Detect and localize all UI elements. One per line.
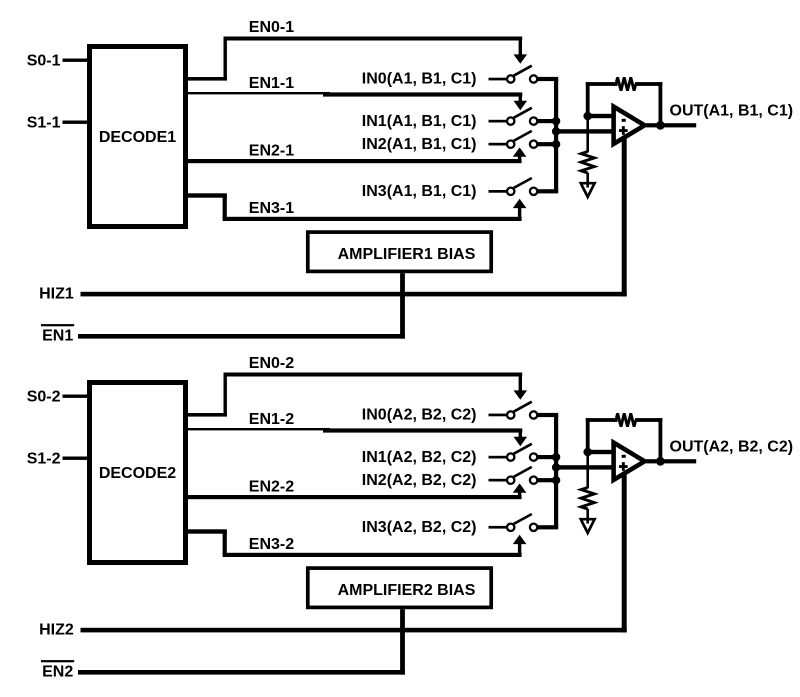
- node EN1 label (overbar): [41, 324, 74, 345]
- wire EN2-1: [188, 156, 522, 164]
- ground 1: [581, 173, 595, 197]
- svg-text:AMPLIFIER1 BIAS: AMPLIFIER1 BIAS: [338, 246, 476, 263]
- svg-text:IN2(A2, B2, C2): IN2(A2, B2, C2): [362, 472, 477, 489]
- wire inverting input 1: [588, 114, 616, 118]
- node EN2 label (overbar): [41, 660, 74, 681]
- switch SW-IN3-1: [507, 178, 537, 195]
- wire divider 2: [586, 452, 589, 488]
- resistor feedback R1f: [616, 77, 636, 90]
- wire IN0-2 input: [489, 414, 508, 417]
- junction IN2 bus node 2: [552, 476, 560, 484]
- wire EN1-2: [188, 428, 522, 438]
- wire S1-1: [63, 121, 88, 124]
- svg-text:IN0(A2, B2, C2): IN0(A2, B2, C2): [362, 407, 477, 424]
- junction amp-input bus node 2: [552, 463, 560, 471]
- wire IN2-2 input: [489, 479, 508, 482]
- control arrow EN1-2: [514, 437, 528, 446]
- svg-text:EN2-2: EN2-2: [249, 479, 294, 496]
- svg-text:EN2-1: EN2-1: [249, 143, 294, 160]
- control arrow EN2-1: [513, 147, 527, 156]
- ground 2: [581, 509, 595, 533]
- control arrow EN3-1: [513, 199, 527, 208]
- switch SW-IN1-2: [507, 444, 537, 461]
- svg-text:IN1(A2, B2, C2): IN1(A2, B2, C2): [362, 449, 477, 466]
- wire IN1-1 input: [489, 120, 508, 123]
- svg-text:IN3(A1, B1, C1): IN3(A1, B1, C1): [362, 183, 477, 200]
- wire EN2 (active low): [78, 670, 405, 675]
- control arrow EN3-2: [513, 535, 527, 544]
- control arrow EN0-2: [514, 390, 528, 399]
- op-amp A2: [614, 443, 645, 480]
- resistor feedback R2f: [616, 413, 636, 426]
- decoder DECODE2: [90, 383, 186, 563]
- junction inverting input node 1: [583, 112, 592, 121]
- wire switch output bus 1: [554, 79, 558, 191]
- resistor to ground R1g: [581, 152, 594, 174]
- wire feedback loop 2: [586, 418, 663, 461]
- switch SW-IN0-1: [507, 66, 537, 83]
- wire SW-IN1-2 to bus: [537, 455, 558, 459]
- wire switch output bus 2: [554, 415, 558, 527]
- junction output node 2: [656, 457, 665, 466]
- wire EN2-2: [188, 492, 522, 500]
- wire IN0-1 input: [489, 78, 508, 81]
- svg-text:OUT(A2, B2, C2): OUT(A2, B2, C2): [670, 439, 794, 456]
- control arrow EN0-1: [514, 54, 528, 63]
- wire bias enable 2: [400, 609, 405, 674]
- wire IN1-2 input: [489, 456, 508, 459]
- junction output node 1: [656, 121, 665, 130]
- wire IN2-1 input: [489, 143, 508, 146]
- svg-text:EN3-1: EN3-1: [249, 200, 294, 217]
- wire bus to op-amp noninverting input 2: [556, 465, 616, 469]
- wire inverting input 2: [588, 450, 616, 454]
- wire IN3-1 input: [489, 190, 508, 193]
- resistor to ground R2g: [581, 488, 594, 510]
- switch SW-IN1-1: [507, 108, 537, 125]
- svg-text:HIZ2: HIZ2: [39, 621, 74, 638]
- svg-text:S0-2: S0-2: [27, 388, 61, 405]
- wire EN0-2: [188, 373, 522, 417]
- svg-text:EN0-1: EN0-1: [249, 19, 294, 36]
- svg-text:EN2: EN2: [42, 664, 73, 681]
- wire SW-IN1-1 to bus: [537, 119, 558, 123]
- block AMPLIFIER1 BIAS: [308, 232, 491, 271]
- wire SW-IN0-1 to bus: [537, 77, 558, 81]
- wire divider 1: [586, 116, 589, 152]
- junction inverting input node 2: [583, 448, 592, 457]
- switch SW-IN0-2: [507, 402, 537, 419]
- svg-text:S1-1: S1-1: [27, 114, 61, 131]
- wire EN3-1: [188, 193, 522, 221]
- wire bus to op-amp noninverting input 1: [556, 129, 616, 133]
- wire EN3-2: [188, 529, 522, 557]
- svg-text:IN0(A1, B1, C1): IN0(A1, B1, C1): [362, 71, 477, 88]
- svg-text:IN1(A1, B1, C1): IN1(A1, B1, C1): [362, 113, 477, 130]
- junction IN2 bus node 1: [552, 140, 560, 148]
- svg-text:AMPLIFIER2 BIAS: AMPLIFIER2 BIAS: [338, 582, 476, 599]
- wire SW-IN2-1 to bus: [537, 142, 558, 146]
- wire SW-IN2-2 to bus: [537, 478, 558, 482]
- svg-text:EN1: EN1: [42, 328, 73, 345]
- svg-text:IN3(A2, B2, C2): IN3(A2, B2, C2): [362, 519, 477, 536]
- switch SW-IN3-2: [507, 514, 537, 531]
- svg-text:OUT(A1, B1, C1): OUT(A1, B1, C1): [670, 103, 794, 120]
- svg-text:S1-2: S1-2: [27, 450, 61, 467]
- wire HIZ2: [81, 474, 627, 633]
- wire EN1 (active low): [78, 334, 405, 339]
- wire SW-IN3-2 to bus: [537, 525, 558, 529]
- block AMPLIFIER2 BIAS: [308, 568, 491, 607]
- wire HIZ1: [81, 138, 627, 297]
- wire IN3-2 input: [489, 526, 508, 529]
- wire S0-2: [63, 395, 88, 398]
- junction IN1 bus node 2: [552, 453, 560, 461]
- svg-text:EN0-2: EN0-2: [249, 355, 294, 372]
- svg-text:EN3-2: EN3-2: [249, 536, 294, 553]
- switch SW-IN2-2: [507, 467, 537, 484]
- op-amp A1: [614, 107, 645, 144]
- wire bias enable 1: [400, 273, 405, 338]
- wire output OUT 1: [646, 123, 696, 127]
- wire EN1-1: [188, 92, 522, 102]
- switch SW-IN2-1: [507, 131, 537, 148]
- junction amp-input bus node 1: [552, 127, 560, 135]
- svg-text:S0-1: S0-1: [27, 52, 61, 69]
- control arrow EN1-1: [514, 101, 528, 110]
- svg-text:DECODE1: DECODE1: [99, 129, 176, 146]
- wire EN0-1: [188, 37, 522, 81]
- svg-text:DECODE2: DECODE2: [99, 465, 176, 482]
- svg-text:IN2(A1, B1, C1): IN2(A1, B1, C1): [362, 136, 477, 153]
- junction IN1 bus node 1: [552, 117, 560, 125]
- decoder DECODE1: [90, 47, 186, 227]
- svg-text:HIZ1: HIZ1: [39, 285, 74, 302]
- wire SW-IN0-2 to bus: [537, 413, 558, 417]
- svg-text:EN1-2: EN1-2: [249, 411, 294, 428]
- control arrow EN2-2: [513, 483, 527, 492]
- wire feedback loop 1: [586, 82, 663, 125]
- svg-text:EN1-1: EN1-1: [249, 75, 294, 92]
- wire output OUT 2: [646, 459, 696, 463]
- wire SW-IN3-1 to bus: [537, 189, 558, 193]
- wire S1-2: [63, 457, 88, 460]
- wire S0-1: [63, 59, 88, 62]
